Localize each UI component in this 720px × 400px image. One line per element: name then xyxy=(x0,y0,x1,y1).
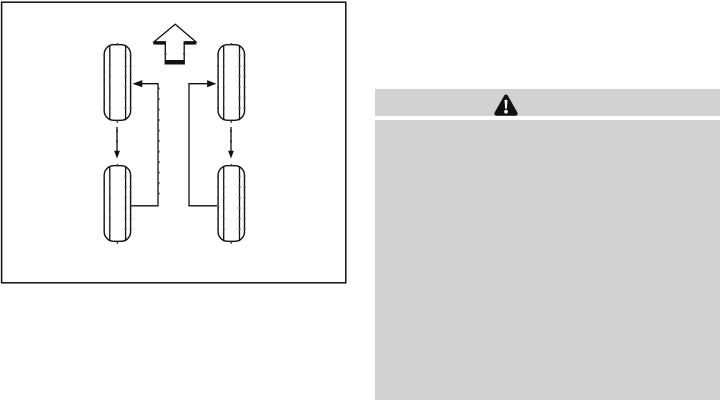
direction-of-travel up arrow xyxy=(153,24,196,64)
tire rotation diagram (SVG) xyxy=(0,0,360,300)
rotation path rear-right to front-right (wire) xyxy=(189,80,217,206)
warning header band (grayed) xyxy=(375,89,720,116)
diagram frame xyxy=(2,2,346,283)
arrow front-left to rear-left xyxy=(114,127,120,159)
tire rear-right xyxy=(217,164,245,244)
tire front-left xyxy=(103,43,131,123)
tire rear-left xyxy=(103,164,131,244)
grayed-out text body block xyxy=(375,120,720,400)
tire front-right xyxy=(217,43,245,123)
rotation path rear-left to front-left (wire) xyxy=(131,80,159,206)
warning triangle icon xyxy=(492,92,520,118)
arrow front-right to rear-right xyxy=(228,127,234,159)
